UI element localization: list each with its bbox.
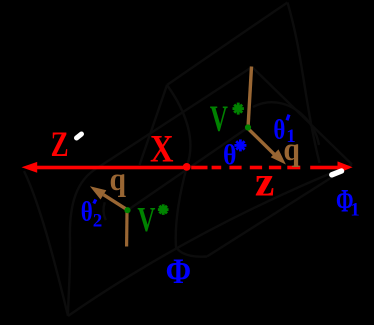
faint line: axis left crossing to top of V* line (98, 67, 252, 168)
svg-text:z: z (255, 159, 275, 205)
svg-text:q: q (110, 162, 127, 198)
svg-text:1: 1 (350, 199, 360, 220)
asterisk of theta-star (234, 139, 246, 151)
svg-text:θ: θ (223, 139, 237, 171)
left arrowhead of Z axis (22, 162, 38, 173)
faint line lower right diagonal (207, 165, 352, 257)
brown q arrow right head (271, 149, 286, 164)
node: green dot left V* (124, 207, 130, 213)
brown q arrow right shaft (249, 129, 277, 157)
node: green dot right V* (245, 124, 251, 130)
svg-text:2: 2 (93, 211, 103, 232)
faint plane edge: apex right side down to axis (288, 3, 320, 164)
brown V* line lower left (125, 212, 129, 247)
faint line from origin down (176, 168, 207, 257)
svg-text:Φ: Φ (166, 251, 192, 291)
faint lower plane diagonal (68, 165, 352, 317)
svg-text:X: X (150, 128, 174, 171)
wire: solid red Z axis (36, 166, 187, 170)
svg-text:V: V (137, 200, 155, 239)
dashed red z axis (191, 166, 338, 170)
white mark near right arrowhead (332, 171, 342, 175)
svg-text:V: V (210, 99, 228, 140)
white prime after Z (77, 134, 82, 138)
svg-text:Z: Z (51, 124, 69, 164)
faint line: top of V* line to axis right (252, 67, 352, 165)
faint cone edge curved (68, 168, 98, 317)
brown V* line upper right (248, 67, 252, 129)
faint plane edge: bend to origin dot (167, 85, 190, 167)
faint angle arc theta1 (253, 102, 319, 145)
faint angle arc theta2 (104, 202, 106, 220)
svg-text:θ: θ (81, 197, 93, 227)
faint plane edge: apex to left bend (167, 3, 288, 86)
node: origin red dot (183, 163, 191, 171)
brown q arrow left head (90, 186, 106, 199)
faint plane edge: bend down to axis (140, 85, 168, 165)
right arrowhead of z axis (338, 161, 353, 173)
faint line through V* points (128, 128, 249, 211)
faint cone edge left (24, 171, 68, 316)
brown q arrow left shaft (104, 195, 127, 210)
svg-text:q: q (283, 132, 300, 168)
